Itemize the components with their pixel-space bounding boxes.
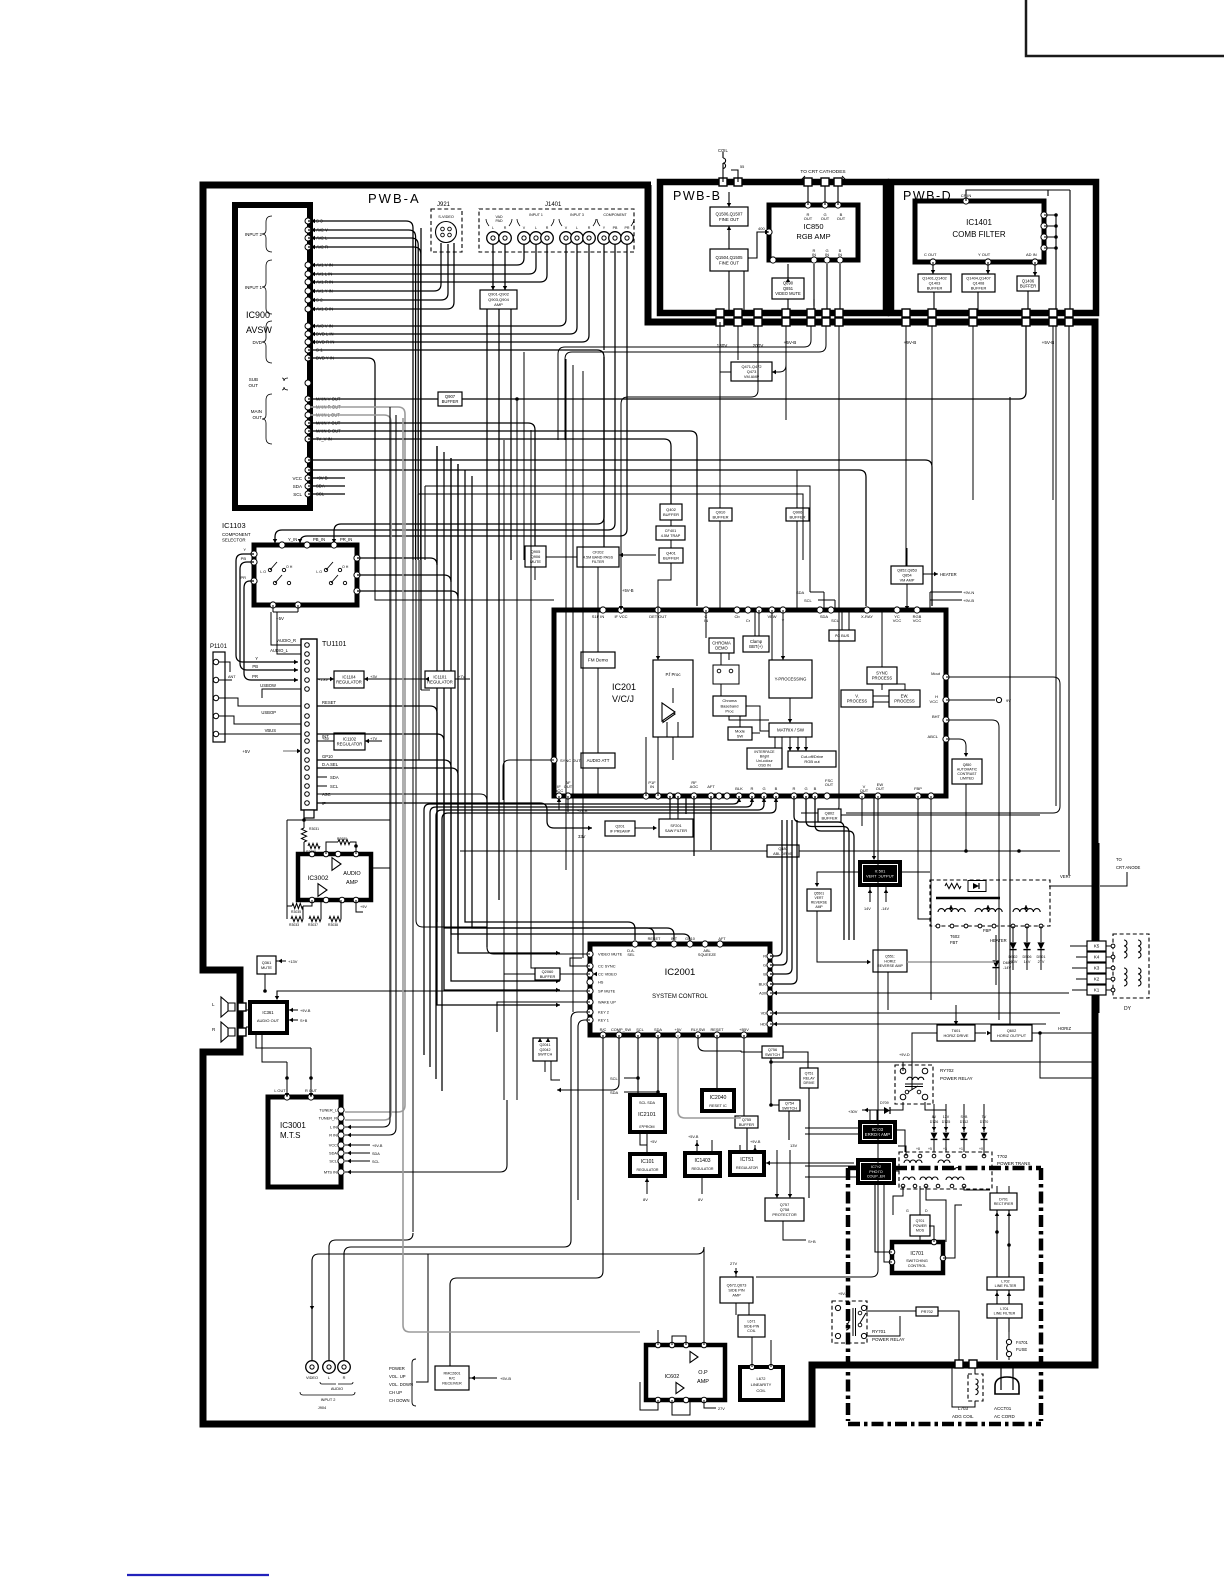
- svg-text:PB: PB: [613, 226, 618, 230]
- svg-text:Q756: Q756: [768, 1048, 777, 1052]
- fuse F4701: [1006, 1339, 1011, 1344]
- wire ASC run: [317, 794, 487, 801]
- wire L701-L702: [997, 1290, 1009, 1304]
- amp Q901-Q904: [480, 290, 517, 309]
- a: [734, 1271, 738, 1275]
- ic501 in: [873, 796, 875, 856]
- svg-text:SW: SW: [737, 734, 744, 739]
- DY pins: [1111, 944, 1115, 992]
- wire MAIN Y OUT row: [308, 423, 535, 546]
- wire q850 bottom: [965, 784, 967, 851]
- svg-text:INPUT 1: INPUT 1: [245, 285, 263, 290]
- IC602 opamp2: [676, 1382, 684, 1393]
- svg-text:VIDEO: VIDEO: [306, 1375, 318, 1380]
- wire 419 long: [419, 560, 430, 760]
- connector K1: [1087, 985, 1106, 995]
- wire RC pin: [450, 1035, 603, 1366]
- diode D770: [981, 1133, 988, 1140]
- svg-text:SWITCHING: SWITCHING: [906, 1259, 928, 1263]
- S-video connector circle: [436, 222, 457, 243]
- audio to verticals: [371, 867, 390, 869]
- ic501 14v stubs: [870, 887, 886, 902]
- FBT coil 1: [938, 909, 965, 912]
- wire AMP side: [510, 309, 512, 560]
- wire q201-sf201: [635, 827, 654, 829]
- svg-text:PB: PB: [241, 556, 247, 561]
- svg-text:SUB: SUB: [249, 377, 258, 382]
- wire ic2101 bottom: [640, 1132, 647, 1154]
- audio att: [581, 753, 615, 768]
- bus drop 839: [801, 326, 839, 813]
- svg-text:T702: T702: [997, 1154, 1008, 1159]
- wire 5vb: [620, 596, 622, 610]
- svg-text:FM Demo: FM Demo: [588, 658, 609, 663]
- svg-text:Q5501: Q5501: [814, 892, 824, 896]
- wire ic2101 top: [638, 1078, 658, 1095]
- key list: [389, 1366, 413, 1403]
- horiz drive wires: [912, 1005, 1093, 1090]
- svg-text:K3: K3: [1094, 966, 1100, 971]
- svg-text:Q852,Q853: Q852,Q853: [897, 568, 917, 572]
- svg-text:OUT: OUT: [253, 415, 263, 420]
- wire scl label stub: [624, 1078, 658, 1092]
- FBT arrows: [949, 905, 1028, 909]
- svg-text:VIDEO MUTE: VIDEO MUTE: [775, 291, 801, 296]
- wire +5V grey: [283, 750, 301, 752]
- arrow: [872, 856, 876, 860]
- svg-text:+3V: +3V: [370, 674, 378, 679]
- PWB-D bottom connector squares: [902, 309, 1073, 317]
- line filter L701: [987, 1304, 1022, 1318]
- svg-text:D709: D709: [880, 1101, 889, 1105]
- svg-text:J1401: J1401: [545, 202, 562, 208]
- wire IC850 bottom pins to bus: [814, 264, 840, 318]
- svg-text:O H: O H: [286, 565, 293, 569]
- FM demod FM Demo: [581, 652, 615, 668]
- svg-text:IC2101: IC2101: [638, 1112, 656, 1118]
- svg-text:HORIZ OUTPUT: HORIZ OUTPUT: [997, 1033, 1027, 1038]
- arrows: [311, 263, 315, 284]
- svg-text:R3030: R3030: [337, 837, 347, 841]
- a: [815, 883, 819, 887]
- wire +5V grey: [678, 1035, 740, 1118]
- wire ic201 osd in: [442, 796, 776, 1091]
- arrows: [311, 289, 315, 311]
- svg-text:SCL SDA: SCL SDA: [639, 1101, 656, 1105]
- svg-text:PR: PR: [625, 226, 630, 230]
- wire ic101 bottom: [646, 1176, 648, 1194]
- svg-text:R3033: R3033: [289, 923, 299, 927]
- T702 bottom terminals: [901, 1184, 966, 1188]
- IC1103 left pins: [251, 551, 257, 584]
- wire comp PR: [300, 245, 627, 543]
- svg-text:S+B: S+B: [300, 1019, 308, 1023]
- speaker L: [228, 1003, 235, 1011]
- MTS decoder IC3001 outline: [268, 1097, 341, 1187]
- svg-text:SYNC: SYNC: [876, 670, 888, 675]
- svg-text:CHROMA: CHROMA: [712, 640, 731, 645]
- wire L701 to fuse: [997, 1318, 1009, 1360]
- q361 down: [264, 974, 266, 991]
- wire q755 down: [746, 1128, 748, 1152]
- svg-text:ACC: ACC: [555, 788, 564, 793]
- svg-text:BUFFER: BUFFER: [971, 285, 987, 290]
- svg-text:+9V-B: +9V-B: [372, 1144, 383, 1148]
- wire ic2001 rgb: [770, 820, 787, 965]
- wire IN1-V: [311, 245, 524, 265]
- wire 839 to q802: [841, 814, 1040, 816]
- ry702 wires: [903, 1062, 946, 1110]
- d: [995, 1230, 1011, 1247]
- svg-text:+9V-N: +9V-N: [963, 590, 974, 595]
- T702 top terminals: [904, 1154, 986, 1158]
- RY702 core: [905, 1083, 923, 1085]
- svg-text:ICT51: ICT51: [740, 1157, 754, 1163]
- svg-text:SIDE PIN: SIDE PIN: [728, 1288, 745, 1292]
- wire vert 451: [451, 458, 560, 981]
- wire 604 down2: [603, 530, 605, 545]
- wire sync proc: [882, 610, 905, 690]
- svg-text:K2: K2: [1094, 977, 1100, 982]
- IC2001 left pins: [587, 951, 593, 1023]
- svg-text:Q672,Q673: Q672,Q673: [727, 1283, 747, 1287]
- svg-text:L672: L672: [757, 1376, 767, 1381]
- IC1103 right pins: [354, 555, 360, 594]
- arrow: [727, 226, 731, 230]
- deflection yoke DY dashed: [1113, 934, 1149, 998]
- svg-text:USBOW: USBOW: [260, 683, 276, 688]
- comb loop verticals: [1048, 190, 1070, 318]
- svg-text:S+B: S+B: [808, 1239, 816, 1244]
- svg-text:COIL: COIL: [747, 1329, 755, 1333]
- d709 wires: [862, 1102, 903, 1122]
- chroma baseband proc: [713, 696, 746, 716]
- wire t702 to d701: [964, 1186, 990, 1190]
- svg-text:AVSW: AVSW: [246, 325, 272, 335]
- svg-text:HORIZ DRIVE: HORIZ DRIVE: [943, 1033, 968, 1038]
- svg-text:Y: Y: [243, 547, 246, 552]
- svg-text:RELAY: RELAY: [803, 1076, 815, 1080]
- bottom border squares: [955, 1360, 977, 1368]
- flyback T602 dashed box: [930, 880, 1050, 926]
- d726 tails up: [934, 1104, 984, 1126]
- wire IN1-L: [311, 245, 536, 274]
- PWB-B top connector squares: [719, 178, 842, 186]
- arrows: [788, 747, 808, 751]
- wire IN3-V: [311, 245, 566, 326]
- bus drop 1069: [1068, 326, 1070, 875]
- svg-text:DRIVE: DRIVE: [804, 1081, 816, 1085]
- IC900 label: [246, 310, 272, 335]
- IC3002 bottom pins: [309, 897, 359, 903]
- wire comp Y: [603, 245, 605, 350]
- PWB-B bottom connector squares: [716, 309, 843, 317]
- arrow: [772, 370, 776, 374]
- resistor R3030: [338, 839, 350, 844]
- svg-text:Cr: Cr: [746, 618, 751, 623]
- svg-text:+5V-B: +5V-B: [1042, 340, 1055, 345]
- bus connector squares: [716, 318, 1073, 326]
- switch Q2041 Q2042: [533, 1038, 557, 1061]
- svg-text:VERT: VERT: [1060, 874, 1072, 879]
- svg-text:B: B: [775, 786, 778, 791]
- diode D709: [884, 1107, 890, 1114]
- keys bracket: [412, 1359, 421, 1406]
- T702 sec coil2: [920, 1177, 938, 1180]
- svg-text:AFT: AFT: [718, 937, 726, 941]
- svg-text:HEATER: HEATER: [940, 572, 957, 577]
- svg-text:G: G: [804, 786, 807, 791]
- svg-text:IN: IN: [812, 252, 816, 257]
- arrow: [297, 749, 301, 753]
- K wires: [1070, 946, 1113, 990]
- bus drop 811: [558, 326, 811, 440]
- svg-text:L: L: [492, 226, 494, 230]
- a: [766, 1161, 770, 1165]
- EW process: [889, 690, 920, 707]
- svg-text:RY702: RY702: [940, 1068, 954, 1073]
- svg-text:IC850: IC850: [803, 222, 823, 231]
- connector J921 dashed box: [431, 209, 462, 252]
- svg-text:MTS IN: MTS IN: [324, 1170, 337, 1175]
- wire sda scl: [810, 592, 835, 610]
- mute Q890 Q851 VIDEO MUTE: [772, 278, 804, 299]
- svg-text:SYSTEM CONTROL: SYSTEM CONTROL: [652, 994, 708, 1000]
- J1401 RCA jacks: [487, 232, 634, 245]
- wire hd: [770, 1023, 1046, 1025]
- wire L703 top: [974, 1368, 976, 1374]
- L in wire: [345, 1120, 390, 1127]
- wire IF run: [317, 803, 592, 828]
- IC2001 sublabel: [652, 994, 708, 1000]
- wire 931 down: [930, 796, 932, 1000]
- AC cord plug ACCT01: [995, 1377, 1019, 1394]
- IC3002 top pins: [309, 851, 359, 857]
- svg-text:CH UP: CH UP: [389, 1390, 402, 1395]
- vert 583 long: [582, 371, 584, 958]
- IC201 top pins: [600, 607, 920, 613]
- vert 396: [395, 415, 397, 1128]
- mts in wire: [345, 1100, 507, 1172]
- svg-text:R: R: [343, 1375, 346, 1380]
- svg-text:Uni-colour: Uni-colour: [756, 759, 773, 763]
- buffer Q755: [735, 1116, 758, 1128]
- svg-text:Q751: Q751: [805, 1072, 814, 1076]
- svg-text:IF VCC: IF VCC: [614, 614, 627, 619]
- dots: [1054, 213, 1058, 250]
- svg-text:V: V: [565, 226, 568, 230]
- wire audio att: [597, 768, 599, 796]
- power relay RY701 dashed: [832, 1301, 867, 1343]
- svg-text:+5V: +5V: [674, 1027, 681, 1032]
- wire IC1103 right2: [357, 458, 451, 582]
- FBT coil 3: [1013, 909, 1040, 912]
- svg-text:VM AMP: VM AMP: [744, 374, 760, 379]
- a: [964, 753, 968, 757]
- wire AV2 bundle: [308, 221, 413, 560]
- svg-text:OUT: OUT: [564, 784, 573, 789]
- wire TV_V-IN row: [308, 439, 671, 504]
- PWB-B board outline: [660, 182, 886, 313]
- wire IN3-R: [311, 245, 589, 342]
- switching control IC701 outline: [892, 1242, 943, 1273]
- svg-text:TO CRT CATHODES: TO CRT CATHODES: [800, 169, 845, 175]
- svg-text:ABCL: ABCL: [928, 734, 939, 739]
- svg-text:Q551:: Q551:: [885, 955, 895, 959]
- svg-text:SYNC OUT: SYNC OUT: [560, 758, 581, 763]
- svg-text:Q854: Q854: [902, 573, 911, 577]
- svg-text:R3039: R3039: [306, 850, 316, 854]
- bus drop 786: [785, 326, 787, 420]
- svg-text:AUDIO: AUDIO: [331, 1386, 343, 1391]
- regulator IC751 outline: [730, 1152, 764, 1175]
- vert wire: [899, 872, 1093, 886]
- svg-text:REGULATOR: REGULATOR: [691, 1167, 713, 1171]
- svg-text:PROCESS: PROCESS: [894, 699, 915, 704]
- svg-text:IC1102: IC1102: [343, 736, 357, 741]
- svg-text:SWITCH: SWITCH: [765, 1053, 780, 1057]
- a: [867, 960, 871, 964]
- svg-text:SAW FILTER: SAW FILTER: [665, 829, 688, 833]
- svg-text:L701: L701: [1000, 1307, 1008, 1311]
- svg-text:VD: VD: [761, 1011, 767, 1016]
- svg-text:9V: 9V: [1006, 698, 1011, 703]
- selector switch contacts: [316, 562, 348, 585]
- svg-text:REGULATOR: REGULATOR: [336, 680, 362, 685]
- svg-text:HEATER: HEATER: [990, 938, 1007, 943]
- svg-text:R3031: R3031: [309, 827, 319, 831]
- svg-text:Q851: Q851: [783, 286, 794, 291]
- wire 416 long: [416, 560, 487, 927]
- svg-text:FBP: FBP: [914, 786, 922, 791]
- DY coil top2: [1138, 940, 1141, 958]
- wire b5v: [743, 1035, 745, 1116]
- svg-text:K5: K5: [1094, 944, 1100, 949]
- svg-text:4.5M TRAP: 4.5M TRAP: [661, 534, 681, 538]
- svg-text:MAIN: MAIN: [251, 409, 262, 414]
- wire Q905 stub: [534, 567, 536, 580]
- svg-text:COIL: COIL: [756, 1388, 766, 1393]
- horiz branch: [1040, 1033, 1093, 1078]
- svg-text:Y: Y: [255, 656, 258, 661]
- wire ic751 top: [740, 1145, 755, 1152]
- PIF processor box: [653, 660, 693, 737]
- svg-text:+5V-B: +5V-B: [622, 588, 634, 593]
- svg-text:VERT: VERT: [815, 896, 824, 900]
- a: [932, 1127, 936, 1131]
- ic3001 vcc: [345, 1144, 370, 1146]
- diode D607: [992, 960, 999, 967]
- svg-text:IC361: IC361: [262, 1010, 274, 1015]
- RY701 switch: [858, 1311, 862, 1315]
- wire AMP down R: [498, 309, 500, 900]
- cutoff drive RGB: [788, 751, 836, 767]
- arrow: [727, 203, 731, 207]
- vert 504b: [503, 440, 505, 1100]
- svg-text:C OUT: C OUT: [924, 252, 937, 257]
- T702 sec coil3: [946, 1177, 964, 1180]
- grey 403: [403, 418, 640, 1332]
- L672 pins: [749, 1364, 773, 1369]
- IC850 left pin: [766, 229, 772, 235]
- system control IC2001 outline: [590, 944, 770, 1035]
- svg-text:AMP: AMP: [732, 1293, 741, 1297]
- wire MAIN R OUT row grey: [311, 407, 405, 1112]
- svg-text:SCL: SCL: [610, 1076, 619, 1081]
- svg-text:COMP_SW: COMP_SW: [611, 1027, 631, 1032]
- wire sda pin: [657, 1035, 659, 1095]
- svg-text:FBP: FBP: [983, 928, 991, 933]
- wire det-pif: [657, 610, 659, 660]
- remote receiver RMC2601: [435, 1366, 469, 1390]
- wire video mute in: [487, 947, 590, 954]
- svg-text:+9V-B: +9V-B: [838, 1292, 849, 1296]
- wire chroma to matrix: [729, 706, 769, 731]
- wire GP10 run: [317, 760, 690, 944]
- dot: [1038, 1031, 1042, 1035]
- wire row 460: [308, 460, 932, 606]
- svg-text:D: D: [925, 1209, 928, 1213]
- svg-text:RECTIFIER: RECTIFIER: [994, 1202, 1014, 1206]
- wire ic701 left2: [884, 1183, 892, 1262]
- svg-text:R3035: R3035: [291, 910, 301, 914]
- svg-text:K4: K4: [1094, 955, 1100, 960]
- svg-text:R: R: [751, 786, 754, 791]
- wire ic201 rgb out: [794, 796, 844, 940]
- diode D506: [1023, 942, 1030, 949]
- svg-text:HORIZ: HORIZ: [1058, 1026, 1071, 1031]
- IC2001 top pins: [632, 941, 723, 947]
- svg-text:FILTER: FILTER: [592, 560, 605, 564]
- svg-text:L702: L702: [1001, 1279, 1009, 1283]
- a: [775, 1194, 792, 1198]
- svg-text:CF202: CF202: [592, 550, 603, 554]
- svg-text:CF401: CF401: [665, 529, 676, 533]
- svg-text:+30V: +30V: [848, 1109, 858, 1114]
- svg-text:Q1406: Q1406: [1022, 278, 1035, 283]
- svg-text:BUFFER: BUFFER: [663, 556, 679, 561]
- d: [302, 818, 358, 848]
- wire comp PB: [275, 245, 615, 543]
- preamp Q201: [605, 821, 635, 836]
- FBT damper diode D501a: [968, 881, 986, 892]
- wire cc video: [560, 973, 590, 975]
- video chroma IC201 outline: [554, 610, 946, 796]
- svg-text:TUNER_R: TUNER_R: [319, 1116, 338, 1121]
- FBT coil arrows: [951, 905, 1026, 912]
- DY coil bot2: [1138, 968, 1141, 986]
- svg-text:SCL: SCL: [329, 1159, 337, 1164]
- PWB-A board outline: [203, 185, 1095, 1424]
- svg-text:400: 400: [758, 226, 765, 231]
- svg-text:I²C BUS: I²C BUS: [835, 633, 850, 638]
- wire af out: [567, 796, 569, 812]
- svg-text:D.A.SEL: D.A.SEL: [322, 762, 339, 767]
- svg-text:IC1403: IC1403: [694, 1158, 710, 1164]
- IC3002 opamp top: [332, 858, 341, 871]
- bus drop 973: [972, 326, 974, 500]
- svg-text:KEY 1: KEY 1: [598, 1018, 609, 1023]
- svg-text:REVERSE: REVERSE: [811, 900, 828, 904]
- svg-text:Q850: Q850: [963, 763, 972, 767]
- svg-text:R: R: [793, 786, 796, 791]
- interface OSD: [747, 748, 782, 769]
- IC1103 bottom pins: [270, 602, 301, 608]
- contrast limiter Q850: [952, 759, 982, 784]
- svg-text:+5V-B: +5V-B: [577, 809, 588, 813]
- svg-text:AUDIO_R: AUDIO_R: [277, 638, 296, 643]
- svg-text:LINEARITY: LINEARITY: [751, 1382, 772, 1387]
